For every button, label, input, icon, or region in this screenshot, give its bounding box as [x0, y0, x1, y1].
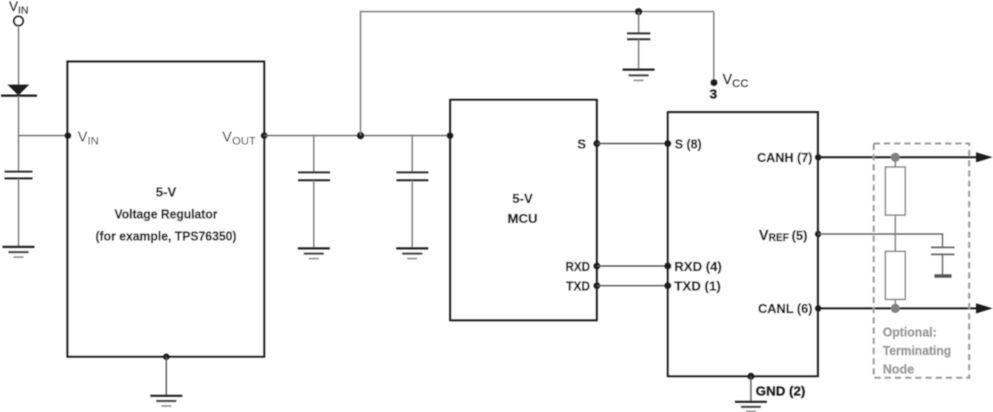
- capacitor C5: [931, 247, 955, 274]
- svg-text:Optional:: Optional:: [883, 324, 937, 339]
- wire VCC drop: [713, 12, 715, 82]
- pin RXD of U2: [566, 259, 601, 274]
- svg-text:RXD: RXD: [566, 259, 591, 274]
- pin S (8) of U3: [664, 136, 701, 151]
- pin VIN of U1: [65, 130, 99, 148]
- node CANH tap: [891, 153, 900, 162]
- svg-text:MCU: MCU: [507, 211, 537, 226]
- svg-text:GND (2): GND (2): [756, 384, 806, 399]
- wire rail up to top rail: [360, 11, 362, 136]
- svg-text:TXD (1): TXD (1): [674, 279, 721, 294]
- capacitor C2: [298, 136, 330, 248]
- MCU U2: [450, 100, 597, 320]
- svg-text:TXD: TXD: [566, 279, 590, 294]
- svg-text:RXD (4): RXD (4): [674, 259, 722, 274]
- svg-text:CANH (7): CANH (7): [757, 150, 813, 165]
- node VIN terminal: [9, 0, 29, 26]
- wire input node to regulator VIN: [19, 135, 68, 137]
- pin VREF (5) of U3: [759, 228, 821, 244]
- wire CANH: [818, 156, 978, 158]
- capacitor C1: [5, 172, 33, 247]
- node CANL tap: [891, 304, 900, 313]
- terminating node dashed box: [874, 144, 970, 378]
- wire U1 ground: [163, 353, 170, 395]
- wire VREF: [818, 234, 943, 247]
- svg-text:CANL (6): CANL (6): [758, 301, 813, 316]
- ground G5: [623, 70, 655, 81]
- wire RXD: [597, 265, 668, 267]
- diode D1: [1, 85, 37, 96]
- resistor R2: [885, 251, 905, 308]
- wire top rail: [361, 11, 714, 13]
- wire S: [597, 143, 668, 145]
- svg-text:5-V: 5-V: [156, 185, 177, 200]
- svg-text:Node: Node: [883, 362, 915, 377]
- wire TXD: [597, 285, 668, 287]
- svg-text:Voltage Regulator: Voltage Regulator: [115, 207, 218, 222]
- capacitor C3: [396, 136, 428, 248]
- wire diode to input node: [18, 96, 20, 171]
- wire VIN terminal to diode: [18, 26, 20, 85]
- pin CANH (7) of U3: [757, 150, 821, 165]
- CAN transceiver U3: [668, 112, 818, 376]
- ground G6: [735, 402, 767, 412]
- ground G1: [3, 247, 35, 257]
- arrow CANL: [976, 303, 993, 313]
- node top rail junction: [635, 8, 642, 15]
- node rail junction: [357, 132, 364, 139]
- ground G2: [298, 248, 330, 258]
- svg-text:5-V: 5-V: [512, 191, 533, 206]
- pin TXD of U2: [566, 279, 600, 294]
- pin VOUT of U1: [222, 130, 267, 148]
- ground bar of C5: [935, 274, 952, 278]
- capacitor C4: [627, 12, 650, 70]
- node U2 VCC pin: [447, 132, 454, 139]
- resistor R1: [885, 157, 905, 215]
- svg-text:S: S: [577, 136, 586, 151]
- svg-text:3: 3: [710, 86, 717, 101]
- wire R1 to R2: [894, 215, 896, 251]
- label Optional Terminating Node: [883, 324, 952, 376]
- voltage regulator U1: [68, 62, 265, 357]
- wire VOUT rail: [264, 135, 450, 137]
- arrow CANH: [976, 152, 993, 162]
- wire CANL: [818, 307, 978, 309]
- pin TXD (1) of U3: [664, 279, 720, 294]
- pin S of U2: [577, 136, 600, 151]
- pin CANL (6) of U3: [758, 301, 821, 316]
- pin GND (2) of U3: [747, 373, 805, 402]
- svg-text:S (8): S (8): [675, 136, 702, 151]
- pin RXD (4) of U3: [664, 259, 721, 274]
- ground G4: [150, 396, 182, 406]
- node VCC terminal pin 3: [710, 72, 749, 101]
- svg-text:Terminating: Terminating: [883, 343, 952, 358]
- ground G3: [396, 248, 428, 258]
- svg-text:(for example, TPS76350): (for example, TPS76350): [96, 229, 237, 244]
